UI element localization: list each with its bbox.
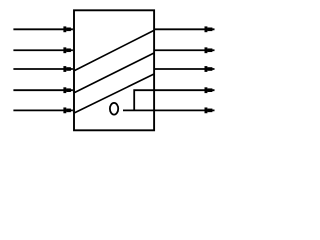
output arrowhead 5	[205, 107, 208, 113]
output arrowhead 2	[205, 47, 208, 53]
shift diagonal 1	[74, 30, 154, 70]
input wire 3	[13, 68, 73, 70]
output wire 4	[155, 89, 215, 91]
input wire 5	[13, 109, 73, 111]
shift diagonal 2	[74, 53, 154, 93]
shift diagonal 3	[74, 74, 154, 113]
wire from zero to output 5	[123, 109, 154, 111]
output arrowhead 3	[205, 66, 208, 72]
output wire 5	[155, 109, 215, 111]
input wire 4	[13, 89, 73, 91]
input wire 1	[13, 28, 73, 30]
input arrowhead 3	[63, 66, 66, 72]
shifter box	[74, 10, 154, 130]
output arrowhead 4	[205, 87, 208, 93]
input arrowhead 2	[63, 47, 66, 53]
input arrowhead 5	[63, 107, 66, 113]
output wire 2	[155, 49, 215, 51]
input arrowhead 1	[63, 26, 66, 32]
branch wire up to output 4	[134, 90, 154, 110]
input arrowhead 4	[63, 87, 66, 93]
output arrowhead 1	[205, 26, 208, 32]
output wire 1	[155, 28, 215, 30]
input wire 2	[13, 49, 73, 51]
output wire 3	[155, 68, 215, 70]
zero fill label	[110, 103, 118, 115]
